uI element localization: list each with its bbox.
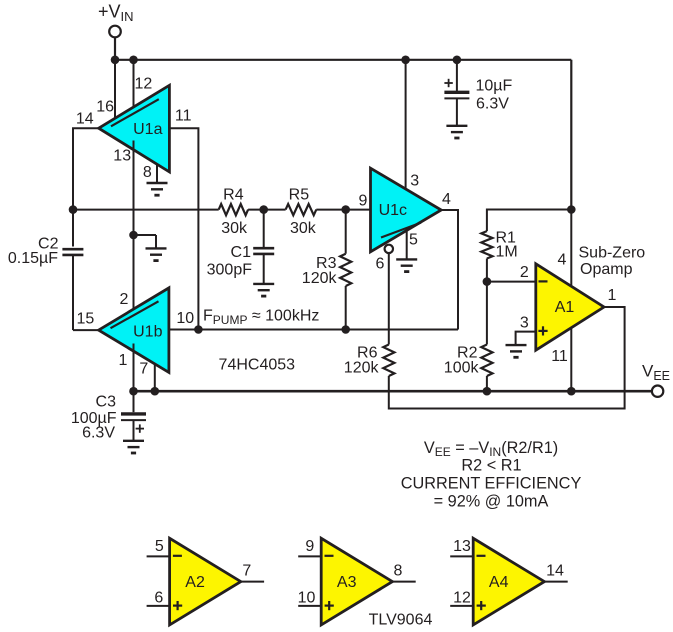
svg-text:A1: A1 <box>555 299 575 316</box>
U1a switch wiper line <box>111 99 159 126</box>
op-amp A2 <box>170 538 241 625</box>
wire +VIN to R1 <box>487 210 571 232</box>
op-amp A1 <box>536 264 604 350</box>
resistor R6 <box>383 345 394 377</box>
ground C1 <box>253 284 274 296</box>
analog switch U1c <box>371 168 442 252</box>
capacitor C1 <box>263 210 265 248</box>
A3 non-inverting plus <box>325 601 334 610</box>
svg-text:300pF: 300pF <box>207 261 253 278</box>
wire A3 inverting input pin 9 <box>298 555 321 557</box>
svg-text:6.3V: 6.3V <box>476 96 509 113</box>
wire U1a pin 8 stub <box>156 164 158 184</box>
svg-text:8: 8 <box>394 563 403 580</box>
wire U1b pin 7 <box>154 364 156 391</box>
wire A4 non-inverting input pin 12 <box>450 605 473 607</box>
A1 inverting input minus <box>539 280 548 282</box>
wire A4 output pin 14 <box>544 581 567 583</box>
wire A3 output pin 8 <box>392 581 415 583</box>
wire U1c pin 5 stub <box>406 229 408 259</box>
wire A1 pin 4 supply <box>570 210 572 287</box>
junction R2/VEE <box>483 387 492 396</box>
wire U1a pin 16 <box>114 60 116 119</box>
wire U1a pin 14 to left column <box>73 128 99 209</box>
svg-text:5: 5 <box>155 538 164 555</box>
svg-text:C1: C1 <box>231 244 252 261</box>
junction pin13/pin2/ground <box>129 231 138 240</box>
svg-text:10: 10 <box>298 589 316 606</box>
ground 10uF <box>446 126 467 138</box>
analog switch U1b <box>99 288 169 373</box>
ground (U1a pin13 / U1b pin2 select) <box>146 248 167 260</box>
wire VEE rail <box>134 390 652 393</box>
node VEE terminal <box>652 386 663 397</box>
svg-text:A4: A4 <box>489 574 509 591</box>
ground C3 <box>123 441 144 453</box>
U1c switch wiper line <box>381 223 421 238</box>
A4 non-inverting plus <box>477 601 486 610</box>
junction R3 / pump rail <box>341 325 350 334</box>
svg-text:U1c: U1c <box>379 202 407 219</box>
wire R5 to U1c pin 9 <box>316 209 371 211</box>
svg-text:2: 2 <box>120 291 129 308</box>
wire U1c pin 4 output to pump rail <box>441 210 458 330</box>
svg-text:R4: R4 <box>223 187 244 204</box>
A2 inverting minus <box>173 555 182 557</box>
svg-text:12: 12 <box>453 589 471 606</box>
svg-text:9: 9 <box>305 538 314 555</box>
svg-text:4: 4 <box>558 252 567 269</box>
svg-text:15: 15 <box>77 311 95 328</box>
A2 non-inverting plus <box>173 601 182 610</box>
svg-text:A2: A2 <box>185 574 205 591</box>
junction C3/pin1 <box>129 387 138 396</box>
wire R4 to R5 <box>248 209 286 211</box>
svg-text:Sub-Zero: Sub-Zero <box>579 245 646 262</box>
A1 non-inverting input plus <box>538 326 547 335</box>
wire A4 inverting input pin 13 <box>450 555 473 557</box>
svg-text:= 92% @ 10mA: = 92% @ 10mA <box>434 493 549 511</box>
svg-text:8: 8 <box>143 164 152 181</box>
svg-text:TLV9064: TLV9064 <box>369 612 433 629</box>
op-amp A3 <box>321 538 392 625</box>
A4 inverting minus <box>477 555 486 557</box>
C3 polarity plus <box>136 424 144 432</box>
junction A1 pin11/VEE <box>567 387 576 396</box>
svg-text:C3: C3 <box>96 394 117 411</box>
svg-text:16: 16 <box>96 99 114 116</box>
svg-text:120k: 120k <box>302 270 338 287</box>
svg-text:120k: 120k <box>344 360 380 377</box>
op-amp A4 <box>473 538 544 625</box>
svg-text:11: 11 <box>175 108 192 125</box>
wire pump node rail (FPUMP) <box>169 329 458 331</box>
svg-text:12: 12 <box>135 76 153 93</box>
svg-text:1M: 1M <box>496 244 518 261</box>
wire A2 inverting input pin 5 <box>147 555 170 557</box>
svg-text:2: 2 <box>520 264 529 281</box>
10uF polarity plus <box>444 79 452 87</box>
svg-text:U1a: U1a <box>133 121 162 138</box>
node R4/R5/C1 junction <box>259 205 268 214</box>
svg-text:4: 4 <box>442 191 451 208</box>
U1c pin 6 contact circle <box>385 245 393 253</box>
resistor R5 <box>286 204 317 215</box>
junction pin7 <box>151 387 160 396</box>
svg-text:U1b: U1b <box>133 324 162 341</box>
wire A3 non-inverting input pin 10 <box>298 605 321 607</box>
capacitor C2 <box>72 210 74 247</box>
svg-text:0.15µF: 0.15µF <box>8 250 58 267</box>
wire U1a pin 13 down <box>133 141 135 236</box>
svg-text:74HC4053: 74HC4053 <box>219 357 296 374</box>
capacitor 10uF bypass <box>456 60 458 91</box>
svg-text:6: 6 <box>376 255 385 272</box>
A3 inverting minus <box>325 555 334 557</box>
svg-text:R2 < R1: R2 < R1 <box>461 457 521 475</box>
svg-text:A3: A3 <box>337 574 357 591</box>
svg-text:R5: R5 <box>289 187 310 204</box>
svg-text:3: 3 <box>520 314 529 331</box>
wire to logic ground stub <box>134 235 157 248</box>
svg-text:30k: 30k <box>221 220 248 237</box>
resistor R1 <box>481 231 492 258</box>
wire U1a pin 12 <box>133 60 135 114</box>
svg-text:10: 10 <box>176 310 194 327</box>
analog switch U1a <box>99 85 170 172</box>
svg-text:14: 14 <box>76 110 94 127</box>
wire U1c pin 3 <box>405 60 407 197</box>
ground A1 pin 3 <box>506 345 527 357</box>
ground U1c pin 5 <box>396 259 417 271</box>
wire A1 pin 11 <box>570 328 572 392</box>
svg-text:11: 11 <box>551 348 568 365</box>
wire left column to R4 <box>73 209 219 211</box>
node R4 input junction <box>69 205 78 214</box>
wire A1 output pin 1 <box>604 306 625 308</box>
junction U1a pin11 / pump rail <box>194 325 203 334</box>
wire to A1 pin 2 <box>487 281 536 283</box>
ground U1a pin 8 <box>147 183 168 195</box>
wire A1 pin 3 <box>516 332 536 346</box>
junction R1/R2/A1 pin2 <box>483 277 492 286</box>
U1b switch wiper line <box>111 301 159 328</box>
svg-text:5: 5 <box>409 232 418 249</box>
wire U1b pin 1 <box>133 344 135 392</box>
svg-text:30k: 30k <box>290 220 317 237</box>
wire A2 output pin 7 <box>241 581 264 583</box>
svg-text:100k: 100k <box>444 360 480 377</box>
svg-text:7: 7 <box>139 361 148 378</box>
node R5/R3/pin9 junction <box>341 205 350 214</box>
svg-text:1: 1 <box>608 287 617 304</box>
svg-text:1: 1 <box>118 352 127 369</box>
wire +VIN right drop <box>570 60 572 210</box>
junction dots on +VIN rail <box>111 56 120 65</box>
svg-text:14: 14 <box>546 563 564 580</box>
wire A2 non-inverting input pin 6 <box>147 605 170 607</box>
wire +VIN top rail <box>115 59 571 61</box>
node +VIN terminal <box>109 26 121 38</box>
svg-text:CURRENT EFFICIENCY: CURRENT EFFICIENCY <box>401 475 582 493</box>
svg-text:Opamp: Opamp <box>580 261 633 278</box>
svg-text:6: 6 <box>154 589 163 606</box>
svg-text:13: 13 <box>453 538 471 555</box>
wire R6 to A1 output return <box>389 307 625 409</box>
svg-text:9: 9 <box>359 193 368 210</box>
resistor R2 <box>486 282 488 345</box>
wire U1b pin 15 <box>73 329 99 331</box>
svg-text:6.3V: 6.3V <box>82 425 115 442</box>
wire U1c pin 6 down <box>388 253 390 344</box>
svg-text:10µF: 10µF <box>476 78 513 95</box>
resistor R4 <box>219 204 248 215</box>
svg-text:3: 3 <box>410 173 419 190</box>
svg-text:13: 13 <box>113 148 131 165</box>
resistor R3 <box>345 210 347 254</box>
wire U1a pin 11 to pump node <box>169 128 198 329</box>
svg-text:7: 7 <box>242 563 251 580</box>
wire to U1b pin 2 <box>133 235 135 316</box>
capacitor C3 <box>133 391 135 412</box>
junction +VIN / R1 <box>567 205 576 214</box>
